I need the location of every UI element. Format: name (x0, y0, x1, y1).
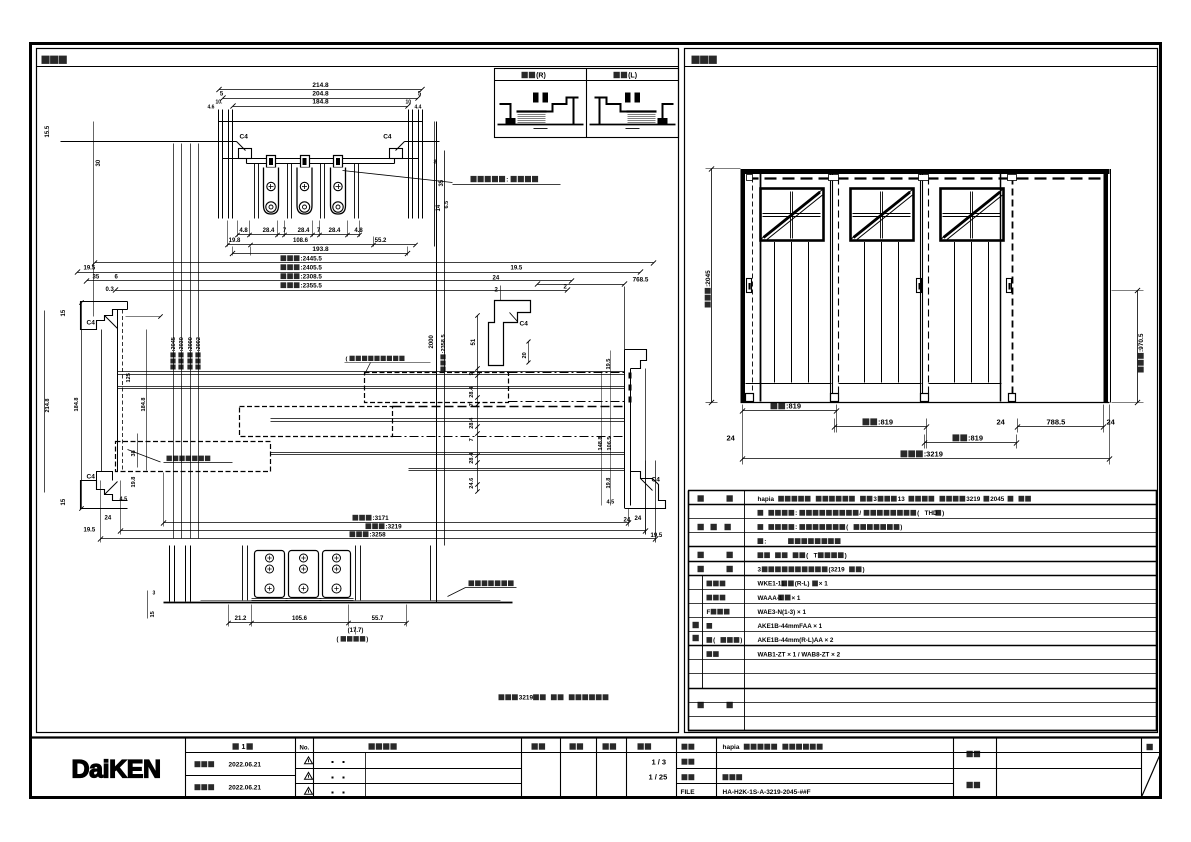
svg-text:4.8: 4.8 (354, 228, 363, 234)
svg-text::3171: :3171 (373, 515, 390, 522)
svg-text:WAB1-ZT × 1 / WAB8-ZT × 2: WAB1-ZT × 1 / WAB8-ZT × 2 (758, 651, 841, 658)
svg-text:): ) (366, 637, 368, 643)
svg-text:24: 24 (1107, 418, 1116, 427)
svg-text:): ) (845, 552, 847, 559)
svg-text:4.8: 4.8 (239, 228, 248, 234)
svg-text:× 1: × 1 (819, 581, 828, 588)
svg-text::2358.5: :2358.5 (441, 334, 447, 353)
svg-text:24: 24 (635, 516, 642, 522)
svg-text:(L): (L) (628, 73, 637, 80)
svg-text::: : (795, 510, 797, 517)
svg-text:184.8: 184.8 (141, 398, 147, 412)
svg-text:15: 15 (61, 309, 67, 316)
svg-text:7: 7 (469, 438, 475, 441)
svg-text:WKE1-11: WKE1-11 (758, 581, 785, 588)
svg-text:19.5: 19.5 (606, 359, 612, 370)
svg-text:193.8: 193.8 (312, 246, 329, 253)
svg-text:C4: C4 (520, 321, 529, 328)
svg-text:1 / 25: 1 / 25 (649, 773, 668, 782)
svg-text:T: T (814, 552, 818, 559)
svg-text:× 1: × 1 (792, 595, 801, 602)
svg-text:): ) (942, 510, 944, 517)
svg-text:1 / 3: 1 / 3 (652, 758, 667, 767)
svg-text:28.4: 28.4 (469, 452, 475, 464)
svg-text:hapia: hapia (758, 496, 775, 503)
svg-text:13: 13 (898, 496, 906, 503)
svg-text:2000: 2000 (429, 334, 435, 348)
svg-text:DaiKEN: DaiKEN (72, 756, 161, 784)
svg-text:15: 15 (61, 498, 67, 505)
svg-text:hapia: hapia (723, 744, 740, 751)
svg-text:AKE1B-44mm(R-L)AA × 2: AKE1B-44mm(R-L)AA × 2 (758, 637, 834, 644)
svg-text::2308.5: :2308.5 (301, 274, 323, 281)
svg-text:(R-L): (R-L) (795, 581, 810, 588)
svg-text:51: 51 (471, 338, 477, 345)
svg-text::2000: :2000 (188, 337, 194, 351)
svg-text:4.5: 4.5 (607, 500, 615, 506)
svg-text:C4: C4 (240, 134, 249, 141)
svg-text:AKE1B-44mmFAA × 1: AKE1B-44mmFAA × 1 (758, 623, 823, 630)
svg-text:28.4: 28.4 (329, 228, 341, 234)
svg-text::3219: :3219 (924, 450, 943, 459)
svg-text:30: 30 (96, 159, 102, 166)
svg-text:10: 10 (406, 100, 412, 106)
svg-text:C4: C4 (383, 134, 392, 141)
svg-text:55.2: 55.2 (375, 238, 387, 244)
svg-text:F: F (707, 609, 711, 616)
svg-text:204.8: 204.8 (312, 91, 329, 98)
svg-text::970.5: :970.5 (1138, 333, 1145, 352)
svg-text:WAE3-N(1-3) × 1: WAE3-N(1-3) × 1 (758, 609, 807, 616)
svg-text::: : (506, 177, 508, 184)
svg-text:3219: 3219 (966, 496, 981, 503)
svg-text:10.: 10. (216, 100, 224, 106)
svg-text:/: / (859, 510, 861, 517)
svg-text:24: 24 (105, 516, 112, 522)
svg-text:148.8: 148.8 (598, 437, 604, 451)
svg-text:No.: No. (300, 746, 310, 752)
svg-text:55.7: 55.7 (372, 616, 384, 622)
svg-text:214.8: 214.8 (312, 82, 329, 89)
svg-text:21.2: 21.2 (235, 616, 247, 622)
svg-text:768.5: 768.5 (633, 277, 649, 284)
svg-text::2045: :2045 (171, 337, 177, 351)
svg-text::819: :819 (878, 418, 893, 427)
svg-text:2045: 2045 (990, 496, 1005, 503)
svg-text::: : (795, 524, 797, 531)
svg-text:19.8: 19.8 (131, 477, 137, 488)
svg-text::3258: :3258 (370, 532, 387, 539)
svg-text:214.8: 214.8 (45, 399, 51, 413)
svg-text:1: 1 (242, 744, 246, 751)
svg-text:19.5: 19.5 (84, 528, 96, 534)
svg-text:24.6: 24.6 (469, 478, 475, 489)
svg-text:9: 9 (469, 372, 475, 375)
svg-text:105.6: 105.6 (292, 616, 308, 622)
svg-text:108.6: 108.6 (293, 238, 309, 244)
svg-text:35: 35 (93, 275, 100, 281)
svg-text:FILE: FILE (681, 789, 696, 796)
svg-text:): ) (900, 524, 902, 531)
svg-text::2405.5: :2405.5 (301, 265, 323, 272)
svg-text:): ) (740, 637, 742, 644)
svg-text:24: 24 (493, 276, 500, 282)
svg-text:C4: C4 (87, 320, 96, 327)
svg-text::2030: :2030 (179, 337, 185, 351)
svg-text:28.4: 28.4 (469, 386, 475, 398)
svg-text:3: 3 (873, 496, 877, 503)
svg-text:(: ( (337, 637, 339, 643)
svg-text:19.8: 19.8 (606, 478, 612, 489)
svg-text:0.3: 0.3 (106, 287, 115, 293)
svg-text::2355.5: :2355.5 (301, 283, 323, 290)
svg-text:7: 7 (469, 403, 475, 406)
svg-text:24: 24 (997, 418, 1006, 427)
svg-text::3219: :3219 (386, 524, 403, 531)
svg-text:15: 15 (150, 611, 156, 617)
svg-text:(3219: (3219 (829, 567, 846, 574)
svg-text:): ) (863, 567, 865, 574)
svg-text:19.5: 19.5 (651, 533, 663, 539)
svg-text:(R): (R) (536, 73, 546, 80)
svg-text::2045: :2045 (705, 270, 712, 287)
svg-text:28.4: 28.4 (263, 228, 275, 234)
svg-text::2002: :2002 (196, 337, 202, 351)
svg-text:106.5: 106.5 (607, 437, 613, 451)
svg-text::819: :819 (968, 434, 983, 443)
svg-text:20: 20 (522, 352, 528, 358)
svg-text:24: 24 (727, 434, 736, 443)
svg-text:C4: C4 (652, 477, 661, 484)
svg-text:HA-H2K-1S-A-3219-2045-##F: HA-H2K-1S-A-3219-2045-##F (723, 789, 811, 796)
svg-text:19.5: 19.5 (511, 266, 523, 272)
svg-text:184.8: 184.8 (312, 99, 329, 106)
svg-text:3219: 3219 (519, 695, 534, 702)
svg-text:(: ( (346, 357, 348, 363)
svg-text:3: 3 (758, 567, 762, 574)
svg-text::819: :819 (786, 402, 801, 411)
svg-text:19.8: 19.8 (229, 238, 241, 244)
svg-text::2445.5: :2445.5 (301, 256, 323, 263)
svg-text::: : (764, 538, 766, 545)
svg-text:28.4: 28.4 (298, 228, 310, 234)
svg-text:28.4: 28.4 (469, 417, 475, 429)
svg-text:4.6: 4.6 (208, 105, 215, 111)
svg-text:184.8: 184.8 (74, 398, 80, 412)
svg-text:15.5: 15.5 (45, 125, 51, 137)
svg-text:788.5: 788.5 (1047, 418, 1066, 427)
svg-text:C4: C4 (87, 474, 96, 481)
svg-text:2022.06.21: 2022.06.21 (229, 785, 262, 792)
svg-text:3: 3 (153, 591, 156, 597)
svg-text:2022.06.21: 2022.06.21 (229, 762, 262, 769)
svg-text:19.5: 19.5 (84, 266, 96, 272)
